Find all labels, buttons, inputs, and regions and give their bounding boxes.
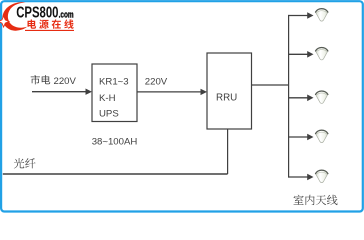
logo star (0, 16, 9, 27)
UPS box KR1~3 K-H UPS (92, 64, 137, 122)
antenna A5 (316, 170, 328, 182)
antenna A3 (316, 91, 328, 103)
antenna A1 (316, 9, 328, 21)
RRU box (207, 53, 252, 129)
logo text 电源在线 (28, 19, 74, 28)
fiber wire vertical to RRU (227, 129, 229, 174)
label 光纤 fiber (14, 158, 36, 168)
label 市电 (31, 75, 51, 84)
antenna bus vertical wire (288, 15, 290, 178)
branch arrow to antenna 1 (289, 15, 309, 17)
svg-text:UPS: UPS (99, 108, 119, 119)
logo red underline (25, 29, 74, 31)
wire arrow mains to UPS (32, 91, 87, 93)
svg-text:KR1~3: KR1~3 (99, 77, 129, 88)
svg-text:220V: 220V (145, 76, 168, 87)
svg-text:K-H: K-H (99, 93, 116, 104)
svg-text:.com: .com (59, 9, 74, 19)
branch arrow to antenna 3 (289, 97, 309, 99)
wire arrow UPS to RRU (137, 91, 202, 93)
label 室内天线 indoor antennas (294, 195, 338, 205)
branch arrow to antenna 4 (289, 136, 309, 138)
wire RRU to antenna bus (252, 84, 289, 86)
svg-text:220V: 220V (54, 76, 77, 87)
antenna A2 (316, 47, 328, 59)
branch arrow to antenna 5 (289, 176, 309, 178)
branch arrow to antenna 2 (289, 53, 309, 55)
antenna A4 (316, 130, 328, 142)
logo CPS800.com swoosh (2, 2, 27, 31)
svg-text:RRU: RRU (216, 93, 237, 104)
svg-text:CPS800: CPS800 (16, 3, 59, 21)
svg-text:38~100AH: 38~100AH (92, 137, 138, 148)
fiber wire horizontal (3, 173, 228, 175)
